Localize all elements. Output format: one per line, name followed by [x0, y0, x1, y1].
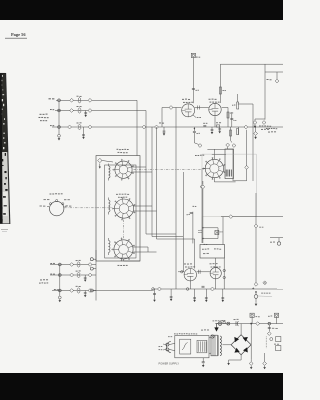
- label W4: [195, 154, 197, 157]
- wire rowC to bus: [96, 290, 152, 292]
- capacitor Cp3: [249, 362, 253, 366]
- node p5: [268, 322, 271, 325]
- capacitor C24: [70, 263, 74, 267]
- wafer W4 det: [205, 159, 223, 177]
- label W9: [50, 193, 52, 196]
- wire h104: [238, 103, 253, 105]
- capacitor C8 bus: [155, 125, 159, 129]
- capacitor C10: [169, 106, 173, 110]
- tube V1 6C4: [182, 104, 195, 117]
- wire r5 top: [237, 99, 239, 102]
- capacitor C27: [88, 273, 92, 277]
- box edge left low: [95, 250, 97, 301]
- capacitor C16 drop: [198, 144, 202, 148]
- output transformer box: [200, 245, 225, 259]
- wire V5 bottom: [189, 281, 191, 289]
- wire h119: [255, 118, 265, 120]
- resistor R9: [77, 262, 80, 265]
- wire row1 drop: [136, 100, 138, 155]
- wire row2 drop: [145, 111, 147, 235]
- control wafer W9: [50, 201, 64, 215]
- capacitor C2 row1: [88, 98, 92, 102]
- resistor R6: [230, 130, 232, 136]
- capacitor C22: [158, 287, 162, 291]
- label C8: [159, 122, 161, 125]
- fuse F1 sym: [250, 313, 254, 317]
- cap det: [190, 212, 193, 214]
- wire w4 left: [202, 169, 205, 185]
- transformer T2 core: [211, 335, 218, 356]
- capacitor C11: [275, 79, 279, 83]
- capacitor C4 row2: [88, 109, 92, 113]
- labels above box: [174, 332, 176, 335]
- capacitor C28: [70, 289, 74, 293]
- agc loop: [203, 228, 218, 239]
- text input legend: [40, 114, 42, 115]
- label rowC: [54, 288, 56, 291]
- ground below row3: [83, 127, 85, 135]
- ground stub a1: [170, 289, 172, 297]
- phono jack J1: [191, 53, 195, 57]
- node b1: [223, 269, 225, 271]
- capacitor C23: [211, 287, 215, 291]
- ground stub a6: [222, 289, 224, 298]
- ground below rowB: [84, 275, 86, 277]
- wire plate line: [207, 149, 233, 181]
- label W3: [118, 264, 120, 267]
- label W2: [116, 193, 118, 196]
- wafer W1 RF: [115, 161, 132, 178]
- bus mid right: [221, 216, 283, 218]
- capacitor C9 in wire: [192, 88, 195, 90]
- node t3 join: [152, 288, 155, 291]
- ground stub a5: [205, 289, 207, 298]
- row3 verticals join: [146, 233, 176, 235]
- gang dash W2-W3: [123, 220, 125, 239]
- capacitor on bus216: [229, 215, 233, 219]
- wire w1 right: [132, 171, 152, 173]
- bold arrow B-: [217, 324, 219, 328]
- wire row1: [56, 99, 137, 101]
- wire w4 bottom: [214, 178, 235, 182]
- label right cluster: [266, 127, 268, 130]
- terminal T3: [90, 289, 93, 292]
- cap on bus C15: [203, 125, 206, 127]
- node p3: [227, 322, 230, 325]
- label row2 input: [50, 109, 52, 110]
- svg-text:POWER SUPPLY: POWER SUPPLY: [159, 361, 180, 365]
- capacitor C3 row2: [70, 109, 74, 113]
- tuner outer box: [96, 156, 140, 261]
- wire V1 grid feed: [162, 107, 182, 109]
- audio bus: [153, 288, 277, 290]
- wire stub: [154, 289, 156, 299]
- diode X-box: [215, 231, 219, 235]
- component on bus: [216, 125, 219, 127]
- pad S1 row1: [58, 99, 61, 102]
- bus crossing vert: [255, 193, 257, 285]
- wire bridge right: [250, 324, 252, 360]
- long vert A: [175, 108, 177, 290]
- wire row3 drop B: [156, 127, 158, 239]
- wire rowB: [50, 274, 96, 276]
- label row3 input: [50, 125, 52, 126]
- wire det vert: [192, 212, 194, 244]
- circled-X node ac: [218, 322, 222, 326]
- capacitor Cp4: [263, 362, 267, 366]
- tube V6: [210, 268, 221, 279]
- svg-text:Page 56: Page 56: [11, 32, 26, 37]
- resistor R2 row2: [78, 108, 81, 111]
- coil L3: [109, 241, 111, 244]
- page number Page 56: [5, 32, 27, 38]
- B+ bus top: [220, 63, 283, 65]
- bottom black film border: [0, 373, 283, 400]
- resistor R3 row3: [78, 124, 81, 127]
- wire V6 bottom: [215, 279, 217, 289]
- V2 cathode stub: [214, 116, 216, 127]
- ground left psu: [228, 360, 230, 363]
- wire V2 plate up: [219, 64, 221, 103]
- wafer W2 OSC: [114, 199, 133, 218]
- diamond float: [263, 281, 267, 285]
- wire w4 top U: [213, 149, 215, 159]
- capacitor C12: [253, 121, 257, 125]
- antenna pad: [98, 158, 102, 162]
- wire tubeC left: [178, 271, 184, 273]
- capacitor C29: [88, 289, 92, 293]
- wire row3 bus: [52, 126, 283, 128]
- wire stub to bus: [161, 108, 163, 128]
- pad S3 row3: [58, 126, 61, 129]
- capacitor Cp2: [256, 322, 260, 326]
- text aux legend: [40, 278, 42, 281]
- ground stub a4: [194, 289, 196, 298]
- resistor R1 row1: [78, 98, 81, 101]
- pad B: [58, 274, 61, 277]
- vert to box: [222, 217, 224, 245]
- resistor R8: [237, 129, 239, 135]
- ground below node: [58, 137, 60, 138]
- gang dash W1-W4: [134, 169, 205, 171]
- ground below box: [202, 358, 204, 362]
- label bus right: [259, 124, 261, 127]
- long vert B: [182, 172, 184, 272]
- pad A: [58, 263, 61, 266]
- wire row2: [55, 110, 146, 112]
- wire trans to bridge: [223, 344, 232, 346]
- label under diamond226: [259, 226, 261, 229]
- transformer T2 secondary: [220, 336, 221, 339]
- vert to tubeC: [194, 239, 196, 269]
- grid marks: [197, 106, 199, 110]
- V2 right components: [222, 107, 228, 109]
- interlock box: [197, 340, 207, 352]
- label V5: [184, 263, 186, 266]
- fuse F2 sym: [274, 313, 278, 317]
- wafer W3 IF: [114, 240, 133, 259]
- label V6: [210, 262, 212, 265]
- junction p4: [251, 323, 252, 324]
- wire J1 down: [192, 58, 194, 104]
- capacitor C13: [262, 121, 266, 125]
- wire box right down: [223, 258, 225, 289]
- node below pads: [58, 296, 61, 299]
- label det: [193, 205, 195, 208]
- ground below row2: [85, 111, 87, 113]
- marks p2: [223, 322, 226, 324]
- terminal T2: [90, 267, 93, 270]
- wire w2 rights: [134, 205, 152, 207]
- right psu cluster: [268, 325, 270, 331]
- wire row3 drop A: [151, 127, 153, 237]
- ground below rowC: [84, 291, 86, 293]
- right edge wire: [270, 237, 283, 239]
- wire rowC: [52, 290, 96, 292]
- capacitor C26: [70, 273, 74, 277]
- switch S1 box: [180, 339, 191, 354]
- wire vertical S1-S3: [58, 100, 60, 134]
- ground stub at bus: [163, 127, 165, 131]
- capacitor C19: [245, 166, 249, 170]
- wire w3 rights: [133, 247, 148, 252]
- capacitor C5 row3: [68, 125, 72, 129]
- capacitor Cp: [235, 321, 237, 326]
- wire inner U: [212, 154, 226, 156]
- node a2: [186, 288, 189, 291]
- faint shield box: [202, 154, 256, 217]
- diamond on vert: [254, 224, 258, 228]
- wire rowA: [50, 264, 96, 266]
- ground below C12: [254, 124, 256, 125]
- capacitor C25: [88, 263, 92, 267]
- wire v2 out drop: [230, 127, 232, 141]
- capacitor C14 diag: [232, 144, 236, 148]
- pilot lamp: [211, 335, 214, 338]
- label rowB: [50, 273, 52, 276]
- ground stub mid1: [211, 127, 213, 130]
- label row1 input: [49, 98, 51, 99]
- capacitor C1 row1: [70, 98, 74, 102]
- wires box to transformer: [209, 337, 211, 339]
- IF can T1: [225, 149, 234, 179]
- stub V1 bottom: [193, 127, 195, 131]
- adjacent page edge strip: [0, 73, 10, 224]
- ground stub mid2: [219, 127, 221, 129]
- label agc1: [198, 229, 199, 232]
- resistor R4: [219, 87, 221, 94]
- label agc2: [204, 243, 206, 246]
- dotted wire: [259, 295, 273, 298]
- tuner inner box: [105, 165, 136, 258]
- resistor R11: [77, 288, 80, 291]
- wire V1-V2: [195, 107, 209, 109]
- pad S2 row2: [58, 109, 61, 112]
- long vert C: [202, 181, 204, 185]
- tube V5: [184, 269, 196, 281]
- T1 windings: [225, 170, 227, 177]
- pad Cc: [58, 289, 61, 292]
- right col diamonds: [254, 282, 258, 286]
- resistor R10: [77, 272, 80, 275]
- wire pad right: [102, 161, 113, 163]
- node below S3: [58, 134, 61, 137]
- node b2: [223, 276, 225, 278]
- node v1b: [194, 128, 195, 129]
- top black film border: [0, 0, 283, 20]
- label V1: [182, 98, 184, 101]
- capacitor C6 row3: [88, 125, 92, 129]
- capacitor C7 bus: [142, 125, 146, 129]
- label W1: [117, 148, 119, 151]
- terminal T1: [90, 258, 93, 261]
- capacitor C18: [200, 185, 204, 189]
- wire box to V6: [215, 258, 217, 268]
- wire right vert: [264, 72, 266, 120]
- wire can right: [234, 130, 247, 181]
- wire bridge top: [240, 324, 242, 335]
- capacitor C20 bus: [244, 125, 248, 129]
- gang dash W9-W2: [64, 207, 113, 209]
- B+ drop right: [265, 64, 283, 72]
- wire w3 bottom: [124, 259, 141, 261]
- resistor R5: [237, 102, 239, 109]
- AC plug P1: [166, 341, 170, 352]
- psu top row: [215, 323, 283, 325]
- label V2: [209, 98, 211, 101]
- wire bridge bottom: [229, 355, 242, 360]
- capacitor C17 top: [226, 143, 230, 147]
- bridge rectifier: [231, 335, 251, 355]
- marks a3: [202, 285, 205, 287]
- label rowA: [50, 262, 52, 265]
- coil L2: [109, 200, 111, 203]
- capacitor C21: [254, 132, 258, 136]
- grid marks 2: [197, 270, 199, 274]
- switch box outer: [175, 336, 209, 358]
- wire c18 down: [201, 189, 203, 243]
- coil L1: [109, 166, 111, 169]
- wire w1 right2: [132, 166, 146, 168]
- wire vert pads: [59, 265, 61, 297]
- wire V5-V6: [197, 271, 211, 273]
- tube V2 6AU6: [209, 103, 221, 115]
